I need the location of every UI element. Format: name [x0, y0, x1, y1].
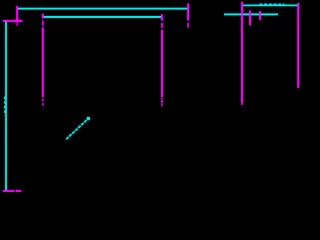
wire magenta bottom horizontal segment b [15, 190, 21, 192]
wire magenta vertical V2 dash [161, 23, 163, 28]
wire magenta vertical V2 bottom dash a [161, 98, 163, 100]
wire cyan dashed highlight on net4 [260, 3, 285, 5]
wire magenta bottom horizontal segment b [15, 190, 21, 192]
wire magenta tick T2 [259, 11, 261, 20]
wire magenta bottom horizontal segment a [3, 190, 14, 192]
wire magenta bottom horizontal segment a [3, 190, 14, 192]
wire magenta vertical V3 solid [187, 3, 189, 20]
wire magenta vertical V2 solid top [161, 14, 163, 20]
wire magenta vertical V1 dash [42, 21, 44, 26]
wire magenta vertical stub lower dim part [16, 22, 18, 26]
wire magenta vertical V3 solid [187, 3, 189, 20]
wire cyan horizontal net3 right-middle [224, 13, 278, 15]
wire magenta vertical V1 main run [42, 27, 44, 97]
wire cyan vertical left net5 [5, 21, 7, 191]
wire cyan horizontal net1 top-left long [17, 8, 187, 10]
wire magenta vertical V1 bottom dash b [42, 103, 44, 106]
wire magenta vertical V4 long [241, 2, 243, 103]
wire magenta vertical V2 main run [161, 30, 163, 98]
wire cyan diagonal dashed ratsnest [66, 119, 88, 140]
wire magenta vertical V2 bottom dash b [161, 103, 163, 106]
wire cyan horizontal net2 left-middle [43, 16, 161, 18]
wire cyan horizontal net2 left-middle [43, 16, 161, 18]
node magenta vertical V2 bright dot [161, 101, 163, 103]
wire cyan horizontal net1 top-left long [17, 8, 187, 10]
wire magenta vertical V1 main run [42, 27, 44, 97]
wire cyan horizontal net4 top-right [243, 4, 298, 6]
wire magenta tick T2 [259, 11, 261, 20]
wire magenta vertical stub top-left [16, 6, 18, 22]
wire magenta vertical V4 long [241, 2, 243, 103]
wire cyan vertical left net5 [5, 21, 7, 191]
wire magenta vertical V2 bottom dash a [161, 98, 163, 100]
wire magenta vertical V1 bottom dash a [42, 99, 44, 101]
wire magenta vertical V1 dash [42, 21, 44, 26]
wire cyan dashed highlight on net5 [4, 97, 6, 116]
wire magenta vertical V2 main run [161, 30, 163, 98]
wire magenta horizontal top-left [3, 20, 23, 22]
wire magenta vertical V1 solid top [42, 14, 44, 19]
wire cyan horizontal net3 right-middle [224, 13, 278, 15]
wire magenta vertical V3 dash [187, 23, 189, 28]
wire magenta horizontal top-left [3, 20, 23, 22]
wire magenta vertical V4 fading tail [241, 103, 243, 106]
wire magenta tick T1 [249, 11, 251, 26]
wire cyan dashed highlight on net5 [4, 97, 6, 116]
wire magenta vertical V2 dash [161, 23, 163, 28]
wire cyan dashed highlight on net4 [260, 3, 285, 5]
wire magenta vertical V1 solid top [42, 14, 44, 19]
node magenta vertical V2 bright dot [161, 101, 163, 103]
wire magenta vertical V3 dash [187, 23, 189, 28]
wire magenta vertical V2 bottom dash b [161, 103, 163, 106]
wire magenta vertical right edge V5 [297, 3, 299, 88]
node ratsnest arrow tip [87, 117, 90, 120]
wire magenta vertical stub top-left [16, 6, 18, 22]
wire magenta tick T1 [249, 11, 251, 26]
wire magenta vertical stub lower dim part [16, 22, 18, 26]
wire magenta vertical V2 solid top [161, 14, 163, 20]
wire magenta vertical V1 bottom dash a [42, 99, 44, 101]
wire magenta vertical right edge V5 [297, 3, 299, 88]
wire cyan diagonal dashed ratsnest [66, 119, 88, 140]
wire magenta vertical V1 bottom dash b [42, 103, 44, 106]
wire cyan horizontal net4 top-right [243, 4, 298, 6]
node ratsnest arrow tip [87, 117, 90, 120]
wire magenta vertical V4 fading tail [241, 103, 243, 106]
